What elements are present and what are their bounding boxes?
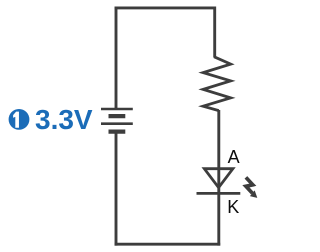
battery BT1 plate short thick bottom	[109, 129, 126, 133]
battery BT1 plate long top	[101, 108, 133, 111]
wire top	[115, 6, 216, 9]
LED D1 triangle (anode)	[204, 169, 233, 188]
LED D1 cathode bar	[197, 192, 241, 195]
wire bottom	[115, 243, 221, 246]
LED light emission arrow	[246, 177, 257, 198]
svg-text:3.3V: 3.3V	[35, 104, 93, 135]
wire right upper (top corner to resistor)	[213, 7, 216, 58]
wire left upper (to battery +)	[115, 7, 118, 109]
battery BT1 plate long bottom	[101, 122, 133, 125]
battery BT1 plate short thick	[109, 114, 126, 118]
wire left lower (battery - to bottom)	[115, 133, 118, 245]
resistor R1	[203, 57, 231, 111]
callout badge 1	[9, 109, 30, 130]
wire right lower (resistor through LED to bottom corner)	[217, 110, 220, 246]
svg-text:A: A	[228, 147, 240, 167]
svg-text:K: K	[227, 197, 239, 217]
